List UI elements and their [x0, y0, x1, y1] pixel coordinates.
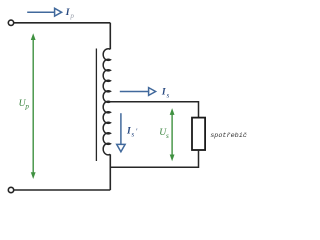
wire right vertical to coil: [109, 23, 111, 50]
wire bottom rail: [14, 189, 111, 191]
svg-text:Is: Is: [161, 87, 170, 100]
svg-text:Is′: Is′: [126, 126, 138, 139]
current arrow Is: [120, 88, 156, 96]
voltage arrow Up: [31, 33, 36, 179]
core bar: [95, 49, 97, 162]
wire load bottom: [110, 150, 198, 167]
current arrow Is': [117, 113, 125, 152]
terminal top-left: [8, 20, 13, 25]
svg-text:Us: Us: [159, 127, 169, 140]
resistor load (spotrebic): [192, 118, 205, 150]
voltage arrow Us: [170, 108, 175, 161]
wire coil bottom down to bottom rail: [109, 154, 111, 190]
svg-text:spotřebič: spotřebič: [210, 132, 247, 140]
svg-text:Ip: Ip: [65, 7, 75, 20]
wire top horizontal: [14, 22, 111, 24]
current arrow Ip: [27, 8, 61, 16]
wire tap to load: [109, 102, 199, 118]
svg-text:Up: Up: [19, 98, 30, 111]
terminal bottom-left: [8, 187, 13, 192]
transformer winding L1: [103, 49, 110, 155]
